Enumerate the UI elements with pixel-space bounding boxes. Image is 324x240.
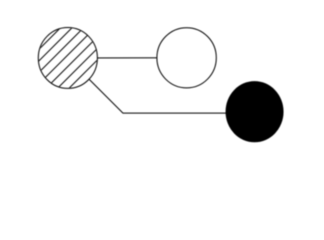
node C: filled black circle xyxy=(226,81,284,142)
node B: empty circle xyxy=(157,28,216,88)
wire: edge from node A to node B xyxy=(68,57,187,59)
node A: hatched circle xyxy=(0,0,157,100)
wire: edge from node A to node C (diagonal then horizontal) xyxy=(68,58,255,113)
